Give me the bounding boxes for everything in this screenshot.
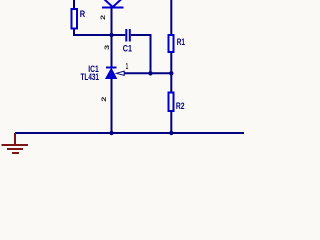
svg-text:C1: C1 — [123, 44, 132, 54]
svg-text:2: 2 — [101, 96, 108, 102]
wire: R1 top lead — [170, 0, 172, 35]
wire: junction to C1 left plate — [112, 34, 126, 36]
wire: R2 bottom lead — [170, 112, 172, 134]
wire: R2 top lead — [170, 73, 172, 92]
node: C1/ref junction — [148, 71, 152, 75]
wire: C1 right plate down to ref node — [131, 35, 151, 73]
node: anode/rail junction — [109, 131, 113, 135]
wire: TL431 anode down to rail — [111, 79, 113, 134]
ground — [2, 133, 29, 153]
svg-text:1: 1 — [126, 62, 129, 71]
resistor R2 — [169, 93, 174, 112]
svg-text:R1: R1 — [177, 37, 185, 47]
svg-text:R2: R2 — [176, 101, 185, 111]
node: R2/rail junction — [169, 131, 173, 135]
wire: ref pin to divider node — [124, 72, 171, 74]
resistor R1 — [169, 35, 174, 52]
svg-text:2: 2 — [99, 14, 106, 20]
diode (cut off at top edge) — [102, 0, 124, 8]
node: top junction — [109, 33, 113, 37]
svg-text:3: 3 — [103, 44, 110, 50]
wire: bottom rail — [15, 132, 244, 134]
IC1 pin 1 reference arrow — [116, 71, 124, 75]
resistor R — [72, 9, 78, 29]
wire: main vertical, diode to TL431 cathode — [111, 9, 113, 68]
svg-text:TL431: TL431 — [81, 72, 100, 82]
wire: R1 bottom lead — [170, 53, 172, 74]
svg-text:R: R — [80, 9, 86, 19]
IC1 TL431 cathode bar (pin 3 side) — [106, 67, 117, 69]
wire: R bottom to top junction — [74, 29, 112, 36]
node: divider junction — [169, 71, 173, 75]
IC1 TL431 anode triangle — [106, 69, 117, 79]
wire: R top lead — [73, 0, 75, 9]
capacitor C1 — [126, 29, 130, 42]
